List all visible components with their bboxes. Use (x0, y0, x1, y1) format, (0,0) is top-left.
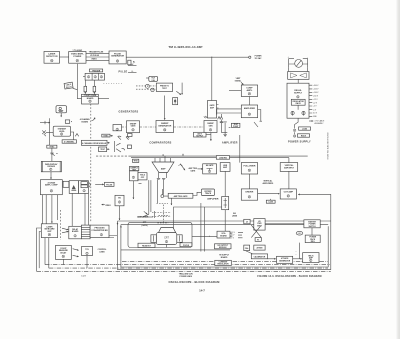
wire count measure down (62, 259, 64, 264)
bus row 2 (45, 264, 330, 266)
box A2 video amplifier power (69, 52, 86, 64)
wire vd pulse (86, 56, 109, 58)
svg-text:SUPPLY: SUPPLY (196, 136, 204, 138)
small box right (138, 173, 147, 180)
power pack regulator box (305, 235, 320, 243)
EL stub box (128, 60, 131, 65)
wire A1-A2 (60, 56, 69, 58)
svg-text:GENERATOR: GENERATOR (158, 124, 172, 127)
power supply U-PS main box (287, 83, 309, 118)
boxed label channel (62, 140, 76, 143)
svg-text:115 VAC: 115 VAC (255, 57, 263, 60)
stub wire EL (128, 65, 137, 67)
fan diagonals bottom (116, 143, 125, 152)
boxed label mv volt (194, 132, 207, 137)
bus line 1 (129, 155, 308, 157)
sync boxed label 2 (102, 134, 110, 137)
sync boxed label (47, 145, 57, 148)
antenna X symbol (42, 130, 53, 136)
terminal circle POWER (249, 56, 251, 58)
funnel amplifier (152, 162, 174, 173)
svg-text:GENERATOR: GENERATOR (279, 260, 291, 263)
svg-text:OSCILLOSCOPE OS-245/U: OSCILLOSCOPE OS-245/U (326, 133, 328, 161)
box M1 (69, 181, 78, 194)
hook clamp (89, 183, 90, 188)
svg-text:GATE: GATE (131, 125, 137, 128)
dash rows above crt (152, 212, 171, 214)
sweep box S2 (156, 121, 174, 133)
svg-text:BOARD: BOARD (87, 97, 94, 100)
arrowheads on enclosure entries (117, 223, 119, 225)
vertical with arrow (181, 83, 183, 95)
svg-text:POWER: POWER (73, 56, 81, 58)
eca box (217, 231, 230, 238)
svg-text:4H GATE: 4H GATE (206, 164, 214, 167)
small box S0 (113, 125, 122, 131)
tiny terminal box (65, 120, 69, 123)
svg-text:GENERATOR: GENERATOR (111, 55, 125, 58)
box M2 (79, 181, 89, 194)
svg-text:FOCUS: FOCUS (183, 245, 190, 247)
svg-text:PULSE: PULSE (119, 72, 128, 74)
wire cd right (98, 98, 109, 100)
diagonal stub (254, 122, 258, 127)
funnel output caps (157, 173, 167, 180)
focus boxed label (180, 243, 192, 247)
wires bottom cluster (268, 258, 276, 260)
svg-text:LOAD: LOAD (302, 127, 308, 130)
svg-text:4 CHANNEL: 4 CHANNEL (64, 140, 75, 143)
video out box V2 (115, 195, 124, 206)
crt funnel lid (159, 228, 176, 233)
wire amp right down (258, 110, 262, 122)
verticals between (249, 171, 289, 189)
crt bottom wire (166, 245, 168, 248)
wire S3 drop (210, 133, 212, 141)
meter M1 (295, 60, 303, 68)
svg-text:LINES: LINES (232, 215, 238, 217)
pulse boxed label (105, 182, 115, 186)
box A1 laser detector (44, 52, 60, 64)
verticals L2 to L3 (43, 195, 52, 224)
svg-text:TRIGGER: TRIGGER (92, 70, 101, 72)
capacitor C-b with ground (223, 122, 227, 136)
box comparator (241, 85, 257, 97)
svg-text:RACK: RACK (296, 102, 302, 105)
svg-text:F1: F1 (257, 239, 259, 241)
tov box (82, 247, 93, 256)
svg-text:FIGURE 14-3. OSCILLOSCOPE - BL: FIGURE 14-3. OSCILLOSCOPE - BLOCK DIAGRA… (257, 275, 321, 278)
svg-text:ASSEMBLY: ASSEMBLY (315, 122, 325, 125)
bus line 2 (131, 157, 289, 159)
bowtie attenuator (288, 72, 309, 80)
press to test box (156, 83, 172, 91)
svg-text:+: + (296, 251, 297, 253)
svg-text:+: + (296, 254, 297, 256)
wire V2 drop into enclosure (119, 206, 121, 220)
calibrator box (251, 254, 267, 259)
svg-text:TRACE: TRACE (205, 192, 212, 195)
diagonal wire (245, 251, 252, 254)
lamp DS1 (291, 111, 294, 114)
svg-text:AMPL COMP: AMPL COMP (45, 184, 58, 187)
video delay tilted label (64, 82, 73, 89)
tiny stub label b (128, 145, 132, 149)
tall narrow box gate (208, 101, 217, 119)
wire hv to master (265, 223, 304, 225)
dotted row (104, 83, 123, 85)
wire trigger pulse (86, 52, 109, 54)
svg-text:SIGNAL: SIGNAL (235, 80, 243, 83)
crt enclosure (128, 222, 192, 247)
tab connector (63, 181, 69, 187)
bus tick node (162, 154, 164, 156)
svg-text:14-7: 14-7 (199, 289, 205, 293)
out amp box (280, 189, 296, 199)
inner enclosure E2 (121, 225, 328, 267)
feeder verticals (143, 180, 151, 217)
svg-text:AMPLIFIER: AMPLIFIER (244, 107, 256, 110)
bus tick node 2 (182, 154, 184, 156)
crt body (156, 233, 177, 245)
test boxed label (99, 147, 107, 152)
rotate feeds down (201, 203, 205, 252)
trace generator box (277, 256, 293, 263)
wire down (50, 172, 52, 179)
gnd oval (296, 231, 303, 235)
svg-text:+: + (288, 57, 289, 59)
svg-text:+300 V: +300 V (313, 85, 319, 87)
svg-text:BOARD: BOARD (72, 230, 79, 233)
arrows from count box (73, 249, 79, 251)
small relay box (173, 98, 178, 105)
svg-text:LINES: LINES (99, 252, 105, 254)
svg-text:VERTICAL: VERTICAL (263, 180, 273, 183)
long vertical from top wire (211, 57, 213, 100)
svg-text:AMP INPUT: AMP INPUT (284, 166, 295, 169)
svg-text:VIDEO: VIDEO (91, 59, 97, 61)
svg-text:MODULE: MODULE (219, 247, 228, 249)
svg-text:GATE: GATE (190, 170, 196, 173)
arrow down from label (170, 198, 172, 205)
lv box (244, 219, 250, 224)
svg-text:CALIBRATOR: CALIBRATOR (254, 255, 266, 258)
inner regulator rack box (291, 99, 305, 105)
sample boxed label (130, 166, 139, 170)
sweep box S1 (127, 121, 140, 133)
psu bottom wire (295, 118, 299, 128)
svg-text:VIDEO: VIDEO (105, 205, 111, 207)
wire tov down (86, 256, 88, 269)
svg-text:+100 V: +100 V (313, 92, 319, 94)
deflection plate right (177, 235, 182, 243)
svg-text:SUPPLY: SUPPLY (294, 92, 303, 94)
master power switch box (304, 220, 320, 228)
count measure delay box (56, 245, 72, 259)
current regulator boxed label (215, 260, 232, 265)
svg-text:4 CHANNEL DRIVE MODULE: 4 CHANNEL DRIVE MODULE (82, 142, 107, 145)
sync drop vertical (49, 118, 51, 145)
sweep box S3 (204, 121, 217, 133)
capacitor C-a to ground (220, 120, 228, 133)
fan hooks top (118, 136, 130, 140)
outer enclosure E1 (118, 194, 331, 269)
dashed vertical long (90, 104, 92, 222)
svg-text:AMP: AMP (161, 167, 166, 170)
tiny stub label a (128, 134, 133, 137)
wire comp to amplifier (248, 97, 250, 106)
box L3 laser sim (41, 224, 57, 238)
box amplifier U2 (241, 105, 257, 118)
channel amp box L2 (40, 180, 62, 195)
tilt rounded label (149, 76, 158, 81)
svg-text:POWER SUPPLY: POWER SUPPLY (288, 141, 311, 144)
svg-text:-150 V: -150 V (313, 95, 319, 97)
lamp L2 (151, 88, 154, 91)
svg-text:LOW: LOW (269, 202, 273, 204)
wire down from circle box (132, 181, 134, 199)
svg-text:OUT AMP: OUT AMP (284, 191, 294, 194)
arrows L3 to L4 (62, 228, 68, 230)
wires into amplifier (217, 109, 242, 115)
svg-text:BOARD: BOARD (82, 120, 89, 123)
atten box (254, 245, 265, 250)
svg-text:FOLLOWER: FOLLOWER (243, 166, 255, 168)
bus drop to vert amp (288, 158, 290, 163)
dashed vertical (60, 210, 62, 240)
amp trig gate boxed label (168, 193, 193, 198)
svg-text:AMPLIFIERS: AMPLIFIERS (262, 182, 273, 185)
data display box (41, 161, 61, 171)
right scan shadow (397, 0, 400, 339)
svg-text:PULSE: PULSE (106, 184, 113, 186)
T2 box (220, 163, 230, 172)
svg-text:EL: EL (132, 71, 134, 73)
low boxed label (266, 200, 275, 203)
svg-text:POWER LINES: POWER LINES (180, 276, 193, 278)
svg-text:VD PULSE: VD PULSE (90, 55, 100, 57)
wire top long run to power terminal (126, 56, 249, 58)
diagonal arrow right of funnel (180, 164, 185, 171)
wire meter to psu (289, 68, 308, 84)
meter lamp M3 (293, 135, 296, 138)
svg-text:ATTEN: ATTEN (257, 247, 263, 250)
svg-text:DRIVER: DRIVER (246, 192, 254, 194)
diagonal arrow press (176, 91, 181, 94)
three-cell delay box (85, 73, 104, 80)
drop arrow into S2 (164, 96, 166, 120)
node junction (211, 57, 212, 58)
wire driver to out amp (258, 193, 280, 195)
node junction circle (161, 195, 164, 198)
trig boxed label (133, 159, 139, 162)
arrow to cable assembly (309, 120, 313, 122)
box with circle (130, 171, 139, 181)
trigger boxed label (90, 69, 103, 72)
crossing wires (251, 225, 261, 238)
dash-dot interconnect (122, 126, 205, 128)
svg-text:AMPLIFIER: AMPLIFIER (222, 141, 238, 144)
dashed wires (136, 86, 156, 89)
svg-text:READOUT: READOUT (142, 244, 152, 247)
mil-std symbol box (56, 106, 67, 113)
cal box (244, 245, 250, 251)
psu output ticks and labels (309, 85, 312, 116)
svg-text:TM 9-4935-601-14-36P: TM 9-4935-601-14-36P (168, 45, 202, 49)
deflection plate left (151, 235, 156, 243)
svg-text:+225 V: +225 V (313, 89, 319, 91)
hv output boxed label (215, 244, 232, 249)
helix amp box (303, 253, 319, 263)
svg-text:CONVERTER BD: CONVERTER BD (91, 230, 108, 232)
striped connector box (81, 225, 90, 239)
bottom-left connector wire (40, 122, 50, 124)
bus dashed lead-in (96, 155, 129, 157)
stub wire AZ (128, 72, 137, 74)
boxed label RACK (298, 134, 310, 137)
wire to rotate box (193, 192, 202, 195)
svg-text:DETECTOR: DETECTOR (46, 56, 58, 58)
svg-text:TRIG: TRIG (133, 161, 138, 163)
svg-text:GENERATORS: GENERATORS (119, 110, 139, 113)
svg-text:AMPL: AMPL (246, 89, 253, 92)
long wire into CRT right (174, 207, 222, 235)
T1 box (203, 164, 217, 174)
wire L0 right (71, 132, 74, 140)
bus row 1 (122, 260, 328, 262)
svg-text:AMPLIFIER: AMPLIFIER (207, 197, 219, 200)
hv power supply box (254, 219, 265, 231)
stubs right of converter (109, 236, 117, 238)
readout boxed label (138, 243, 155, 247)
svg-text:OSCILLOSCOPE - BLOCK DIAGRAM: OSCILLOSCOPE - BLOCK DIAGRAM (168, 280, 220, 284)
svg-text:1 TO 4 MHZ: 1 TO 4 MHZ (72, 49, 83, 52)
meter posts (289, 58, 308, 67)
svg-text:SYNC: SYNC (103, 136, 109, 138)
funnel feeds (155, 156, 171, 162)
box receiver L0 (53, 126, 70, 136)
count down box (82, 94, 99, 104)
vertical down to follower (239, 135, 241, 163)
wire A2 drop (77, 64, 81, 99)
wires below M boxes (72, 193, 88, 226)
svg-text:POINT: POINT (233, 126, 239, 128)
wire video (86, 59, 109, 61)
vert amp input box (280, 163, 298, 172)
svg-text:COMPARATORS: COMPARATORS (149, 141, 171, 144)
tiny fuse box (255, 238, 261, 242)
rotate rounded box (201, 189, 214, 196)
loading boxed label (216, 156, 229, 160)
boxed label LOAD (299, 127, 311, 130)
lamp L1 (146, 84, 150, 88)
driver box (241, 189, 257, 200)
box A3 pulse generator (109, 51, 126, 64)
svg-text:DELAY: DELAY (60, 251, 67, 254)
TP boxed label (231, 123, 240, 127)
svg-text:REG: REG (311, 241, 315, 243)
meter lamp M2 (293, 129, 296, 132)
fan vertical (113, 141, 115, 152)
svg-text:LEVEL: LEVEL (59, 131, 66, 133)
svg-text:BOARD: BOARD (220, 234, 227, 237)
pillar P2 (93, 86, 96, 92)
svg-text:DECADE: DECADE (47, 165, 55, 168)
pillar P1 (84, 86, 87, 92)
line under crt box (121, 249, 230, 251)
verticals through J column (224, 171, 226, 231)
process converter box (90, 225, 109, 238)
box L4a (69, 226, 82, 239)
svg-text:(GATE): (GATE) (142, 224, 148, 227)
svg-text:BOARD: BOARD (221, 256, 228, 259)
4 channel drive wide box (81, 140, 107, 145)
J1 box (222, 197, 229, 210)
wire inner to lamps (297, 105, 299, 110)
wire into comparator (229, 90, 241, 92)
bus row 3 (49, 267, 328, 269)
bus row 4 (37, 270, 331, 272)
svg-text:TRIGGER PULSE: TRIGGER PULSE (89, 52, 104, 54)
wire crt enclosure to eca (192, 235, 217, 237)
follower box (241, 163, 257, 174)
svg-text:SWITCH: SWITCH (309, 226, 317, 228)
svg-text:RACK: RACK (301, 134, 307, 137)
svg-text:REGULATOR: REGULATOR (217, 263, 229, 266)
svg-text:LOADING: LOADING (219, 156, 228, 159)
wires L3 down to bus (45, 238, 49, 269)
Y arrow (220, 114, 223, 120)
capacitor divider (50, 148, 58, 161)
dashes region (157, 203, 169, 205)
lamp DS2 (302, 111, 305, 114)
svg-text:CRT: CRT (164, 237, 169, 240)
svg-text:AMP TRIG GATE: AMP TRIG GATE (174, 195, 189, 198)
